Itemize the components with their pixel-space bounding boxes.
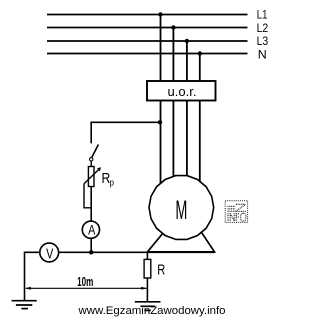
- wire u.o.r. output 1 to motor: [160, 101, 162, 186]
- wire N neutral line: [47, 53, 248, 55]
- wire tap L1 to u.o.r.: [160, 15, 162, 82]
- svg-text:u.o.r.: u.o.r.: [168, 85, 197, 99]
- svg-text:L1: L1: [257, 9, 268, 21]
- wire stand to earth resistor R: [146, 252, 148, 260]
- svg-text:L2: L2: [257, 23, 269, 35]
- switch S blade: [92, 145, 99, 158]
- wire ammeter to bottom rail: [90, 238, 92, 252]
- junction dot N tap: [198, 51, 202, 55]
- ground left electrode: [12, 301, 37, 309]
- wire L3 phase line: [47, 40, 248, 42]
- svg-text:www.EgzaminZawodowy.info: www.EgzaminZawodowy.info: [77, 305, 225, 317]
- svg-text:10m: 10m: [77, 274, 93, 289]
- svg-text:p: p: [110, 178, 115, 189]
- wire u.o.r. output 3 to motor: [186, 101, 188, 180]
- svg-text:M: M: [175, 195, 187, 225]
- junction dot L1 tap: [158, 12, 162, 16]
- EZ INFO logo: [225, 201, 247, 223]
- junction dot ammeter branch: [89, 250, 93, 254]
- motor M circle: [149, 176, 214, 240]
- junction dot L3 tap: [185, 39, 189, 43]
- wire R to ground: [146, 278, 148, 301]
- wire left probe drop: [24, 252, 26, 301]
- svg-text:L3: L3: [257, 36, 269, 48]
- svg-text:R: R: [157, 262, 165, 279]
- junction dot L2 tap: [171, 25, 175, 29]
- rheostat Rp body: [88, 167, 94, 187]
- switch S pivot circle: [90, 158, 93, 161]
- wire u.o.r. output 2 to motor: [172, 101, 174, 180]
- wire Rp to ammeter: [90, 187, 92, 222]
- wire tap L2 to u.o.r.: [172, 28, 174, 82]
- wire tap N to u.o.r.: [199, 54, 201, 82]
- wire bottom rail: [25, 251, 215, 253]
- junction dot measuring tap: [158, 120, 162, 124]
- svg-text:A: A: [88, 221, 96, 237]
- earth resistor R body: [144, 259, 151, 278]
- ammeter A: [82, 221, 99, 238]
- wire u.o.r. output 4 to motor: [199, 101, 201, 186]
- wire L1 phase line: [47, 14, 248, 16]
- motor stand triangle: [147, 207, 214, 252]
- svg-text:N: N: [258, 50, 267, 62]
- RCD box U1 u.o.r.: [147, 81, 216, 101]
- wire tap L3 to u.o.r.: [186, 41, 188, 82]
- wire Rp wiper loop: [84, 184, 91, 208]
- voltmeter V: [40, 243, 59, 262]
- dimension line 10m: [26, 287, 147, 289]
- wire L2 phase line: [47, 27, 248, 29]
- wire switch to rheostat: [90, 161, 92, 167]
- wire measuring branch tap: [91, 122, 160, 143]
- rheostat Rp wiper arrow: [84, 169, 99, 184]
- svg-text:V: V: [46, 246, 53, 263]
- ground right electrode: [135, 302, 161, 311]
